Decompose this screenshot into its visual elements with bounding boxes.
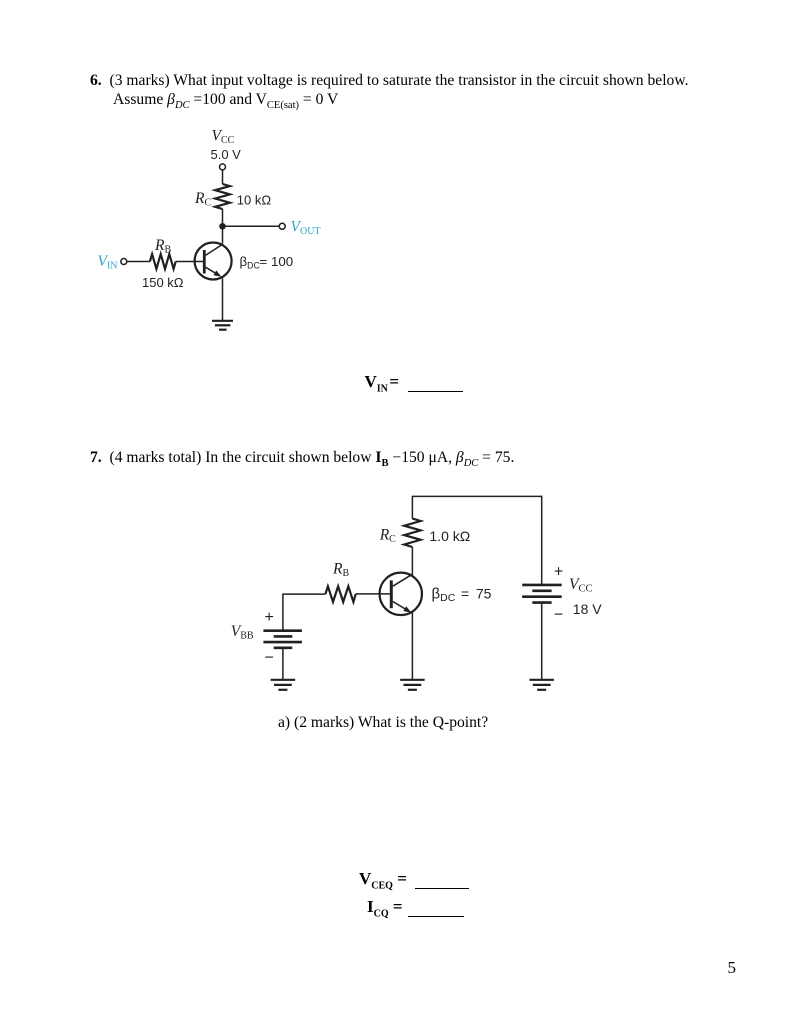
svg-text:RC: RC xyxy=(379,527,396,546)
resistor RB xyxy=(150,254,176,269)
circuit for question 6 xyxy=(90,125,350,340)
node collector junction xyxy=(219,223,226,230)
resistor RC xyxy=(215,184,230,209)
terminal VCC xyxy=(220,164,226,170)
svg-text:VCC: VCC xyxy=(569,576,592,595)
transistor Q1 collector lead xyxy=(206,244,223,255)
svg-text:= 75: = 75 xyxy=(461,586,492,602)
wire node to VOUT terminal xyxy=(223,225,280,227)
resistor RB xyxy=(325,586,355,602)
wire emitter to ground xyxy=(222,278,224,320)
terminal VOUT xyxy=(279,223,285,229)
svg-text:VOUT: VOUT xyxy=(291,219,321,238)
page number xyxy=(728,959,737,976)
ground VCC xyxy=(529,680,554,690)
svg-text:+: + xyxy=(554,564,563,581)
battery VBB xyxy=(263,631,302,648)
ground emitter xyxy=(400,680,425,690)
answer blank VCEQ xyxy=(359,870,469,894)
svg-text:βDC: βDC xyxy=(432,586,456,605)
ground Q6 xyxy=(212,321,233,330)
wire VCC terminal to RC xyxy=(222,170,224,184)
svg-text:18 V: 18 V xyxy=(573,601,602,617)
svg-text:150 kΩ: 150 kΩ xyxy=(142,275,184,290)
svg-text:−: − xyxy=(265,650,274,667)
svg-text:+: + xyxy=(265,609,274,626)
svg-text:10 kΩ: 10 kΩ xyxy=(237,193,272,208)
wire RC to collector xyxy=(222,209,224,244)
transistor Q1 emitter lead xyxy=(206,267,218,274)
wire VCC to ground xyxy=(541,603,543,680)
ground VBB xyxy=(271,680,296,690)
wire VBB to ground xyxy=(282,648,284,679)
svg-text:VIN: VIN xyxy=(98,253,118,272)
wire top rail collector to VCC xyxy=(412,496,541,585)
transistor Q2 circle xyxy=(380,573,422,615)
transistor Q1 circle xyxy=(195,243,232,280)
transistor Q1 base bar xyxy=(203,250,206,274)
wire RC to collector xyxy=(411,547,413,577)
svg-text:βDC: βDC xyxy=(240,254,261,271)
svg-text:VBB: VBB xyxy=(231,623,254,642)
resistor RC xyxy=(404,519,420,547)
wire emitter to ground xyxy=(411,611,413,680)
wire base to RB xyxy=(356,593,391,595)
svg-text:= 100: = 100 xyxy=(260,254,294,269)
question 6 text xyxy=(90,72,710,115)
wire VIN terminal to RB xyxy=(127,261,150,263)
transistor Q1 emitter arrowhead xyxy=(214,270,222,276)
transistor Q2 emitter lead xyxy=(393,602,408,611)
answer blank VIN xyxy=(365,373,464,397)
wire RB to base xyxy=(176,261,204,263)
svg-text:RB: RB xyxy=(332,561,349,580)
circuit for question 7 xyxy=(225,485,610,700)
svg-text:5.0 V: 5.0 V xyxy=(211,147,242,162)
svg-text:RB: RB xyxy=(154,237,171,256)
answer blank ICQ xyxy=(367,898,464,922)
svg-text:1.0 kΩ: 1.0 kΩ xyxy=(429,528,470,544)
transistor Q2 base bar xyxy=(390,580,393,608)
transistor Q2 emitter arrowhead xyxy=(403,606,411,612)
wire RB to VBB xyxy=(283,594,326,631)
question 7 text xyxy=(90,449,730,474)
question 7a text xyxy=(278,714,488,733)
transistor Q2 collector lead xyxy=(393,574,413,586)
svg-text:VCC: VCC xyxy=(212,128,235,147)
svg-text:−: − xyxy=(554,607,563,624)
svg-text:RC: RC xyxy=(194,190,211,209)
terminal VIN xyxy=(121,259,127,265)
battery VCC xyxy=(522,585,562,603)
